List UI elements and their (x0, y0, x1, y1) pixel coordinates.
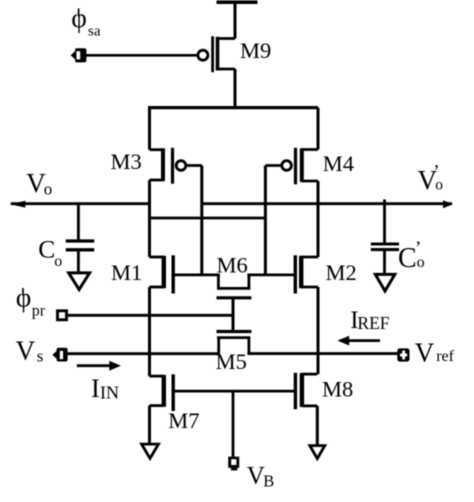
svg-text:φ: φ (16, 282, 32, 312)
svg-text:M8: M8 (322, 377, 353, 402)
svg-text:IN: IN (100, 383, 119, 403)
svg-text:B: B (263, 472, 274, 491)
svg-text:o: o (54, 253, 62, 270)
svg-text:M9: M9 (240, 38, 271, 63)
svg-text:C: C (398, 243, 417, 274)
svg-text:o: o (417, 254, 425, 271)
svg-text:s: s (37, 347, 44, 366)
svg-text:φ: φ (71, 3, 87, 33)
svg-text:V: V (16, 335, 36, 365)
svg-text:M6: M6 (217, 252, 248, 277)
svg-text:M3: M3 (111, 149, 142, 174)
svg-text:REF: REF (357, 313, 389, 333)
svg-text:M2: M2 (326, 260, 357, 285)
svg-text:M5: M5 (216, 349, 247, 374)
svg-text:sa: sa (88, 23, 101, 39)
svg-text:pr: pr (32, 302, 46, 319)
svg-text:ref: ref (436, 348, 454, 365)
svg-text:M7: M7 (168, 408, 199, 433)
svg-text:M1: M1 (111, 260, 142, 285)
svg-text:o: o (44, 180, 53, 199)
svg-text:I: I (91, 373, 100, 403)
svg-text:C: C (38, 235, 55, 264)
svg-text:V: V (247, 463, 265, 490)
svg-text:V: V (415, 337, 435, 367)
svg-text:o: o (435, 176, 443, 193)
svg-text:M4: M4 (323, 151, 354, 176)
